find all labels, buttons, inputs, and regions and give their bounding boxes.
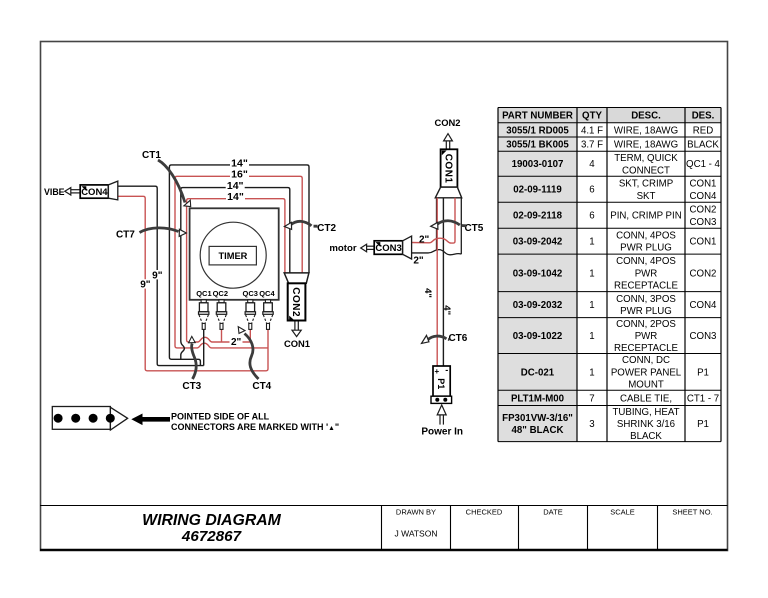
svg-text:PWR PLUG: PWR PLUG [620, 243, 672, 254]
svg-text:1: 1 [589, 331, 594, 342]
svg-text:TERM, QUICK: TERM, QUICK [614, 153, 678, 164]
svg-text:CON1: CON1 [690, 237, 717, 248]
svg-text:BLACK: BLACK [687, 140, 719, 151]
svg-text:14": 14" [227, 191, 244, 203]
svg-text:CONN, 4POS: CONN, 4POS [616, 256, 676, 267]
svg-text:CONNECTORS ARE MARKED WITH '▲": CONNECTORS ARE MARKED WITH '▲" [171, 422, 339, 432]
svg-text:QTY: QTY [582, 111, 602, 122]
svg-text:9": 9" [140, 280, 151, 291]
svg-text:CONN, 4POS: CONN, 4POS [616, 230, 676, 241]
svg-text:CT2: CT2 [317, 223, 336, 234]
svg-text:1: 1 [589, 268, 594, 279]
svg-text:1: 1 [589, 237, 594, 248]
svg-text:CON3: CON3 [690, 331, 717, 342]
svg-text:CON3: CON3 [690, 217, 717, 228]
svg-text:4": 4" [441, 305, 452, 315]
svg-text:03-09-1042: 03-09-1042 [513, 268, 563, 279]
svg-text:DES.: DES. [692, 111, 715, 122]
svg-text:CON4: CON4 [81, 187, 108, 198]
svg-text:3.7 F: 3.7 F [581, 140, 603, 151]
svg-text:QC3: QC3 [242, 289, 257, 298]
svg-text:QC1: QC1 [196, 289, 211, 298]
svg-text:PWR: PWR [635, 268, 658, 279]
svg-text:03-09-1022: 03-09-1022 [513, 331, 563, 342]
svg-text:SKT: SKT [637, 191, 656, 202]
svg-text:QC4: QC4 [259, 289, 275, 298]
svg-text:P1: P1 [697, 419, 709, 430]
svg-text:-: - [445, 365, 448, 375]
svg-text:4: 4 [589, 159, 595, 170]
svg-text:CONN, DC: CONN, DC [622, 355, 670, 366]
svg-text:WIRING DIAGRAM: WIRING DIAGRAM [142, 512, 281, 529]
svg-text:DESC.: DESC. [631, 111, 661, 122]
svg-text:WIRE, 18AWG: WIRE, 18AWG [614, 125, 678, 136]
svg-text:FP301VW-3/16": FP301VW-3/16" [502, 413, 573, 424]
svg-text:+: + [434, 367, 439, 376]
svg-text:TIMER: TIMER [218, 251, 247, 261]
svg-text:3055/1 RD005: 3055/1 RD005 [506, 125, 569, 136]
svg-text:7: 7 [589, 393, 594, 404]
svg-text:19003-0107: 19003-0107 [512, 159, 564, 170]
svg-text:QC1 - 4: QC1 - 4 [686, 159, 721, 170]
svg-text:DATE: DATE [543, 508, 562, 517]
svg-text:CT1 - 7: CT1 - 7 [687, 393, 719, 404]
svg-text:14": 14" [231, 157, 248, 169]
svg-text:CON1: CON1 [284, 338, 310, 349]
svg-text:PWR PLUG: PWR PLUG [620, 306, 672, 317]
svg-text:SCALE: SCALE [610, 508, 635, 517]
svg-text:CON1: CON1 [443, 154, 454, 184]
svg-text:DRAWN BY: DRAWN BY [396, 508, 436, 517]
svg-text:WIRE, 18AWG: WIRE, 18AWG [614, 140, 678, 151]
svg-text:4672867: 4672867 [181, 528, 243, 545]
svg-text:Power In: Power In [421, 427, 463, 438]
svg-text:CON4: CON4 [690, 300, 718, 311]
svg-text:J WATSON: J WATSON [395, 529, 438, 539]
svg-text:CON1: CON1 [690, 179, 717, 190]
svg-text:CT3: CT3 [182, 381, 201, 392]
svg-text:02-09-1119: 02-09-1119 [513, 185, 562, 196]
svg-text:CON2: CON2 [690, 205, 717, 216]
svg-text:VIBE: VIBE [44, 187, 65, 197]
svg-text:2": 2" [231, 337, 242, 348]
svg-text:PIN, CRIMP PIN: PIN, CRIMP PIN [610, 211, 681, 222]
svg-text:PART NUMBER: PART NUMBER [502, 111, 573, 122]
svg-text:SHEET NO.: SHEET NO. [672, 508, 712, 517]
svg-text:CON2: CON2 [434, 117, 460, 128]
svg-text:RECEPTACLE: RECEPTACLE [614, 343, 678, 354]
svg-text:CABLE TIE,: CABLE TIE, [620, 393, 672, 404]
svg-text:CON4: CON4 [690, 191, 718, 202]
svg-text:6: 6 [589, 185, 594, 196]
svg-text:POWER PANEL: POWER PANEL [611, 367, 682, 378]
svg-text:QC2: QC2 [213, 289, 228, 298]
svg-text:MOUNT: MOUNT [628, 379, 664, 390]
svg-text:03-09-2042: 03-09-2042 [513, 237, 563, 248]
svg-text:16": 16" [231, 169, 248, 181]
svg-text:1: 1 [589, 367, 594, 378]
svg-text:RED: RED [693, 125, 713, 136]
svg-text:TUBING, HEAT: TUBING, HEAT [612, 407, 679, 418]
svg-text:02-09-2118: 02-09-2118 [513, 211, 563, 222]
svg-text:9": 9" [152, 270, 163, 281]
svg-text:CON2: CON2 [690, 268, 717, 279]
svg-text:CONN, 2POS: CONN, 2POS [616, 319, 676, 330]
svg-text:SHRINK 3/16: SHRINK 3/16 [617, 419, 675, 430]
svg-text:CHECKED: CHECKED [466, 508, 503, 517]
svg-text:PLT1M-M00: PLT1M-M00 [511, 393, 564, 404]
svg-text:POINTED SIDE OF ALL: POINTED SIDE OF ALL [171, 412, 270, 422]
svg-text:RECEPTACLE: RECEPTACLE [614, 280, 678, 291]
svg-text:4.1 F: 4.1 F [581, 125, 603, 136]
svg-text:P1: P1 [697, 367, 709, 378]
svg-text:P1: P1 [436, 378, 446, 389]
svg-text:4": 4" [422, 288, 433, 298]
svg-text:CT7: CT7 [116, 229, 135, 240]
svg-text:PWR: PWR [635, 331, 658, 342]
svg-text:SKT, CRIMP: SKT, CRIMP [619, 179, 673, 190]
svg-text:CT6: CT6 [448, 333, 467, 344]
svg-text:CONNECT: CONNECT [622, 165, 670, 176]
svg-text:CON3: CON3 [375, 243, 401, 254]
svg-text:03-09-2032: 03-09-2032 [513, 300, 563, 311]
svg-text:2": 2" [413, 256, 424, 267]
svg-text:3055/1 BK005: 3055/1 BK005 [506, 140, 569, 151]
svg-text:2": 2" [419, 234, 430, 245]
svg-text:1: 1 [589, 300, 594, 311]
svg-text:DC-021: DC-021 [521, 367, 555, 378]
svg-text:CON2: CON2 [290, 287, 301, 317]
svg-text:CT4: CT4 [252, 381, 271, 392]
svg-text:motor: motor [329, 243, 356, 254]
svg-text:CONN, 3POS: CONN, 3POS [616, 294, 676, 305]
svg-text:BLACK: BLACK [630, 431, 662, 442]
svg-text:3: 3 [589, 419, 594, 430]
svg-text:6: 6 [589, 211, 594, 222]
svg-text:48" BLACK: 48" BLACK [512, 425, 564, 436]
svg-text:CT5: CT5 [464, 223, 483, 234]
